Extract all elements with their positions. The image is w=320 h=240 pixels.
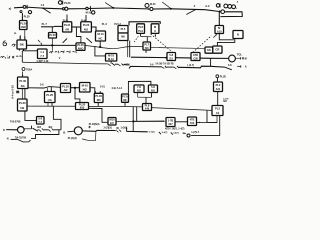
relay M10 EX <box>108 118 116 126</box>
relay M-10 NO <box>80 83 91 93</box>
svg-text:NO: NO <box>151 88 155 92</box>
wire <box>88 7 112 10</box>
svg-text:5-7(X): 5-7(X) <box>149 132 155 134</box>
label D <box>3 128 5 132</box>
svg-text:N: N <box>7 138 9 141</box>
svg-text:7(4-7)(708: 7(4-7)(708 <box>15 136 27 139</box>
wire arrow <box>22 72 24 77</box>
svg-text:a): a) <box>9 7 12 11</box>
svg-text:|-(4-7): |-(4-7) <box>188 64 195 67</box>
wire <box>21 13 23 20</box>
svg-text:1-1: 1-1 <box>40 50 44 54</box>
wire <box>53 129 61 131</box>
contact circle <box>148 7 153 10</box>
svg-text:4(7)4. 14(7). 1-4(7): 4(7)4. 14(7). 1-4(7) <box>165 127 185 130</box>
wire loop <box>82 132 96 141</box>
wire <box>68 130 75 133</box>
wire <box>95 46 106 56</box>
relay PL20 A-NO <box>76 43 85 51</box>
wire staircase <box>53 106 61 130</box>
label 1-XK <box>121 126 128 129</box>
wire <box>219 34 234 40</box>
relay 5-8 7-7 <box>37 117 45 125</box>
svg-text:1-(7)L7: 1-(7)L7 <box>191 131 200 134</box>
wire vert <box>132 107 134 131</box>
wire <box>138 93 152 98</box>
label 4-9L <box>112 87 123 90</box>
wire <box>217 92 219 106</box>
svg-text:NO: NO <box>223 100 227 103</box>
switch blade <box>33 128 39 131</box>
label 5-8 <box>40 84 44 87</box>
label M10 <box>86 12 92 15</box>
switch blade <box>18 139 24 142</box>
relay 1-1 7-7 <box>38 49 48 59</box>
svg-text:A-4 or 5-10: A-4 or 5-10 <box>10 85 14 99</box>
svg-text:4E2: 4E2 <box>48 126 53 129</box>
label PL text <box>68 137 77 140</box>
label PL20 <box>64 1 71 5</box>
lamp circle <box>224 4 228 8</box>
svg-text:M5: M5 <box>121 35 125 39</box>
wire <box>99 41 101 47</box>
relay 5-8b NO <box>148 85 157 93</box>
svg-text:AR: AR <box>65 27 69 31</box>
switch sym <box>116 128 121 132</box>
wire <box>66 15 68 22</box>
svg-text:DE: DE <box>123 98 127 102</box>
svg-text:PL9: PL9 <box>138 29 143 33</box>
svg-text:70X: 70X <box>190 121 195 125</box>
switch break group <box>48 126 53 132</box>
svg-text:449: 449 <box>145 106 150 110</box>
wire <box>85 15 87 22</box>
relay PL31 AR <box>63 22 72 32</box>
relay PL7 NO <box>143 42 151 50</box>
svg-text:PCA: PCA <box>122 94 128 98</box>
wire arrow <box>197 116 218 124</box>
wire <box>68 8 86 10</box>
label 474 row <box>165 127 185 130</box>
wire <box>82 129 115 132</box>
svg-text:A-2: A-2 <box>205 4 210 8</box>
svg-text:PL31: PL31 <box>64 23 71 27</box>
wire <box>23 140 31 142</box>
label N <box>7 138 9 141</box>
svg-text:PL20: PL20 <box>49 33 56 37</box>
wire <box>179 66 225 68</box>
wire <box>43 7 62 10</box>
wire <box>11 138 18 140</box>
svg-text:UA: UA <box>48 98 52 102</box>
wire <box>22 89 25 100</box>
switch break <box>118 64 124 66</box>
lamp circle <box>232 5 236 9</box>
label PL10NA <box>89 123 100 126</box>
relay PL20 600 <box>76 102 89 109</box>
wire <box>128 41 130 58</box>
handwriting note <box>1 56 22 59</box>
wire <box>220 12 242 17</box>
wire <box>115 63 118 65</box>
wire <box>138 97 152 103</box>
relay PL2 A21 <box>214 82 223 92</box>
svg-text:1-5: 1-5 <box>41 4 45 7</box>
wire <box>129 22 160 26</box>
wire <box>114 7 148 10</box>
wire <box>171 9 218 12</box>
svg-text:007: 007 <box>168 122 173 126</box>
svg-text:47B: 47B <box>190 118 195 122</box>
svg-text:PL30: PL30 <box>20 21 27 25</box>
relay PL30 NA <box>18 77 29 89</box>
label PL5-2 <box>114 23 121 26</box>
svg-text:NO: NO <box>84 27 88 31</box>
svg-text:M: M <box>245 57 247 60</box>
svg-text:PL2: PL2 <box>216 83 221 87</box>
wire <box>21 51 23 63</box>
svg-text:M-10: M-10 <box>86 12 92 15</box>
svg-text:M-10: M-10 <box>97 32 104 36</box>
wire <box>110 61 112 64</box>
svg-text:5-01: 5-01 <box>100 86 105 89</box>
svg-text:7-7: 7-7 <box>40 54 44 58</box>
svg-text:PL2E: PL2E <box>220 76 227 79</box>
svg-text:40EK: 40EK <box>124 63 130 66</box>
wire <box>51 38 53 51</box>
wire bus3 <box>22 62 108 64</box>
relay 1-7B 007 <box>166 118 175 127</box>
wire arrow <box>133 120 165 122</box>
switch sym group <box>173 131 186 134</box>
wire <box>131 57 167 59</box>
relay PL25 UA <box>45 92 56 103</box>
label PL40 <box>81 19 87 22</box>
relay PL40 M3 <box>94 93 103 102</box>
lamp M-10 circle <box>91 11 95 14</box>
lamp M-20 circle <box>145 4 149 8</box>
relay PCA DE <box>122 94 129 102</box>
relay M-10 coil <box>96 31 106 41</box>
label 7-70 text <box>15 136 27 139</box>
wire loop <box>207 111 217 123</box>
wire <box>26 7 43 8</box>
relay stack lower <box>118 33 128 41</box>
switch S1 blade <box>42 7 50 13</box>
svg-text:NO: NO <box>145 46 149 50</box>
wire <box>126 128 128 132</box>
lamp PL2E circle <box>216 75 226 79</box>
relay M-10 M-1C <box>106 54 117 62</box>
label 2-7X <box>104 126 112 129</box>
wire <box>6 129 17 131</box>
svg-text:PL2: PL2 <box>215 107 220 111</box>
svg-text:CR: CR <box>215 48 219 52</box>
relay M A-10 <box>215 26 224 34</box>
svg-text:PL20: PL20 <box>64 1 71 5</box>
svg-text:ANO: ANO <box>78 46 84 50</box>
label PL31 <box>63 20 69 22</box>
relay 7-8 NO <box>134 85 144 93</box>
wire hook <box>129 66 162 68</box>
label TOL <box>237 52 243 56</box>
svg-text:M: M <box>154 25 156 29</box>
wire <box>44 129 49 131</box>
svg-text:PL-5: PL-5 <box>102 23 108 26</box>
label 40EK <box>124 63 130 66</box>
arrow mark <box>213 34 217 37</box>
wire <box>90 88 95 94</box>
vertical note <box>10 85 14 99</box>
lamp PL30 circle <box>28 11 32 14</box>
svg-text:3-4(7): 3-4(7) <box>173 131 179 134</box>
wire row4 <box>28 87 60 88</box>
label 700A <box>22 67 32 71</box>
svg-text:PL30: PL30 <box>19 101 26 105</box>
svg-text:A21: A21 <box>216 87 221 91</box>
wire <box>20 30 25 41</box>
switch break <box>162 66 166 69</box>
svg-text:B.: B. <box>63 131 66 134</box>
contact circle <box>216 3 220 7</box>
switch break group <box>37 126 44 132</box>
wire bus4 <box>27 106 211 110</box>
svg-text:A10: A10 <box>217 29 222 33</box>
wire <box>127 130 148 132</box>
svg-text:5-8: 5-8 <box>169 53 173 57</box>
label PL30 <box>24 15 30 18</box>
overload TOL circle <box>229 55 236 62</box>
contact P1 circle <box>23 5 27 9</box>
wire <box>47 87 51 92</box>
relay PL8 449 <box>143 103 152 110</box>
node junction <box>218 11 220 13</box>
svg-text:PL31: PL31 <box>63 20 69 22</box>
handwriting <box>50 51 77 53</box>
svg-text:4EF: 4EF <box>37 126 42 129</box>
contact circle <box>221 10 225 14</box>
diag mark <box>86 38 92 43</box>
svg-text:UB: UB <box>20 106 24 110</box>
wire <box>96 91 101 93</box>
wire <box>153 8 171 10</box>
svg-text:PL30: PL30 <box>19 79 26 83</box>
label 5A 5B <box>156 63 174 66</box>
relay ATR CW <box>191 53 200 61</box>
switch break <box>174 66 179 69</box>
wire <box>54 25 63 27</box>
wire <box>235 57 246 60</box>
label 1-5 <box>41 4 45 7</box>
lamp circle <box>228 5 232 9</box>
relay 5-8 EX <box>167 53 176 61</box>
node a) label <box>9 7 12 11</box>
wire <box>166 66 174 68</box>
wire <box>31 130 59 139</box>
wire <box>20 49 24 51</box>
diag mark <box>63 39 67 43</box>
wire <box>145 50 147 53</box>
label breaker <box>188 64 195 67</box>
dashed mark <box>134 36 138 42</box>
contact circle <box>86 6 91 11</box>
contactor SS <box>205 47 213 53</box>
svg-text:4-4EP 4-4E: 4-4EP 4-4E <box>36 60 49 63</box>
switch blade <box>225 67 232 70</box>
relay PL30 AR <box>61 84 71 93</box>
wire <box>89 108 109 122</box>
node junction <box>99 46 101 48</box>
switch S2 blade <box>105 3 114 9</box>
svg-text:PL-7: PL-7 <box>42 23 48 26</box>
svg-text:M: M <box>218 26 220 30</box>
svg-text:N: N <box>237 33 239 37</box>
wire vert <box>136 107 138 121</box>
relay stack upper <box>118 26 128 34</box>
wire bus sag <box>85 46 205 49</box>
wire hook <box>235 1 239 9</box>
svg-text:PL10(N)A: PL10(N)A <box>89 123 100 126</box>
contact circle <box>187 134 190 137</box>
svg-text:ATR: ATR <box>193 53 198 57</box>
label 5-6 <box>150 63 154 66</box>
wire <box>210 58 212 66</box>
wire <box>155 33 156 36</box>
label 743-0768 <box>10 120 21 123</box>
svg-text:PL8: PL8 <box>138 25 143 29</box>
contact circle <box>20 11 22 13</box>
label PL-7 <box>42 23 48 26</box>
svg-text:D: D <box>3 128 5 132</box>
label PL-5 <box>102 23 108 26</box>
label 2 <box>194 4 196 8</box>
svg-text:700A: 700A <box>26 67 32 71</box>
switch sym group <box>162 131 173 135</box>
wire loop <box>128 81 151 94</box>
relay PL2 A0 <box>212 106 223 116</box>
motor circle <box>74 127 82 135</box>
svg-text:5-4(7): 5-4(7) <box>162 131 168 134</box>
svg-text:2-(7)(X): 2-(7)(X) <box>104 126 112 129</box>
svg-text:743-0768: 743-0768 <box>10 120 21 123</box>
svg-text:m.: m. <box>14 32 17 35</box>
svg-text:1NO: 1NO <box>20 25 26 29</box>
wire <box>217 39 234 47</box>
svg-text:A: A <box>245 64 247 68</box>
wire <box>141 36 152 42</box>
wire <box>72 27 81 43</box>
svg-text:EX: EX <box>170 56 174 60</box>
svg-text:PL20: PL20 <box>83 23 90 27</box>
switch S4 blade <box>186 10 196 15</box>
svg-text:PL25: PL25 <box>46 93 53 97</box>
svg-text:TOL: TOL <box>237 52 243 56</box>
svg-text:600: 600 <box>80 105 85 109</box>
svg-text:PL7: PL7 <box>144 42 149 46</box>
svg-text:A0: A0 <box>216 111 220 115</box>
wire <box>140 33 142 36</box>
svg-text:AR: AR <box>63 88 67 92</box>
wire <box>14 6 23 9</box>
switch sym group <box>149 132 161 135</box>
wire <box>25 111 37 120</box>
svg-text:M-20: M-20 <box>150 3 156 6</box>
dash marks <box>38 40 42 45</box>
svg-text:EX: EX <box>110 121 114 125</box>
wire <box>22 50 37 52</box>
svg-text:CW: CW <box>193 56 198 60</box>
relay N coil <box>233 31 243 39</box>
dashed line D2 <box>193 36 212 53</box>
label 5-01 <box>100 86 105 89</box>
wire <box>124 102 126 106</box>
wire <box>218 13 220 26</box>
svg-text:5A 5B-7A 5B-7B: 5A 5B-7A 5B-7B <box>156 63 174 66</box>
label 5-8 <box>228 64 232 67</box>
wire <box>216 78 218 82</box>
motor circle <box>18 127 25 134</box>
svg-text:SS: SS <box>207 48 211 52</box>
wire <box>20 36 25 40</box>
wire <box>97 103 99 107</box>
lamp PL20 circle <box>58 1 62 5</box>
wire <box>124 63 130 66</box>
svg-text:PL30: PL30 <box>24 15 30 18</box>
relay PL30 UB <box>18 99 28 111</box>
switch S3 blade <box>162 2 172 10</box>
svg-text:PL40: PL40 <box>95 94 102 98</box>
svg-text:NO: NO <box>137 88 141 92</box>
label 6 glyph <box>3 41 7 46</box>
wire <box>176 57 229 60</box>
wire bus2 <box>27 44 77 46</box>
relay BK <box>17 40 27 49</box>
dashed line D1 <box>151 34 173 53</box>
contactor CR <box>213 46 222 53</box>
label m <box>14 32 17 35</box>
plus tick <box>88 126 90 128</box>
svg-text:4-9L 5-L2: 4-9L 5-L2 <box>112 87 123 90</box>
label A-2 <box>205 4 210 8</box>
relay M-20 NO <box>81 22 92 32</box>
relay PL20 coil <box>49 33 57 39</box>
wire <box>116 120 134 122</box>
wire <box>24 126 31 129</box>
svg-text:PL(4)(4): PL(4)(4) <box>68 137 77 140</box>
wire <box>191 116 220 136</box>
label M20 <box>150 3 156 6</box>
label 1-7L7 <box>191 131 200 134</box>
relay PL8 <box>137 24 145 34</box>
svg-text:(X): (X) <box>116 128 119 130</box>
relay M8 <box>151 24 159 34</box>
svg-text:NC: NC <box>99 37 103 41</box>
relay PL30 1-NO <box>20 21 28 30</box>
wire <box>71 87 80 89</box>
svg-text:1-7B: 1-7B <box>168 118 174 122</box>
switch break <box>108 63 115 66</box>
label 4-4EP <box>36 60 49 63</box>
label B <box>63 131 66 134</box>
wire <box>41 27 54 33</box>
svg-text:NA: NA <box>21 84 25 88</box>
wire <box>75 88 80 103</box>
contact pair circles <box>63 7 68 10</box>
svg-text:M-1C: M-1C <box>108 57 114 61</box>
ink blob <box>16 91 19 94</box>
arrow mark <box>12 44 15 47</box>
wire <box>237 64 247 68</box>
